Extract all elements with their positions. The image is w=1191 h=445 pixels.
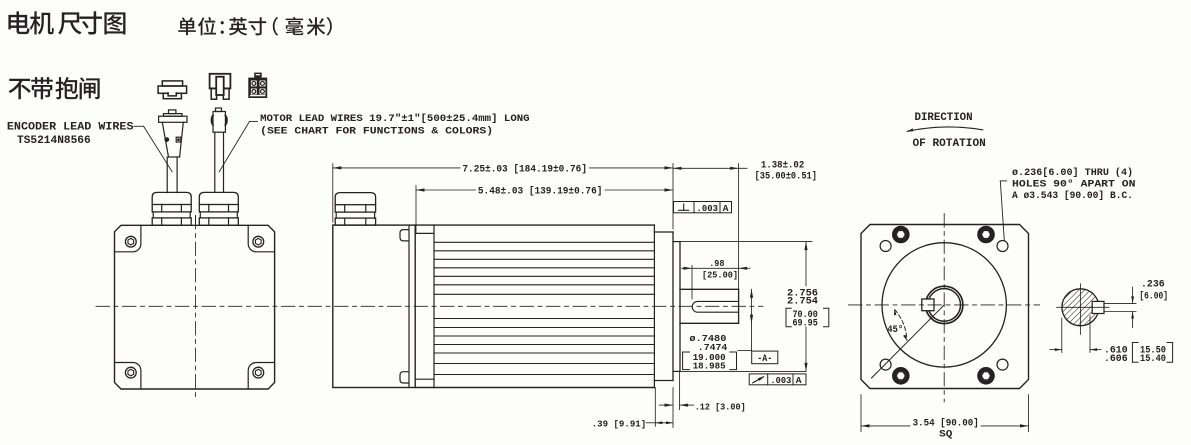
svg-text:[35.00±0.51]: [35.00±0.51] [755, 171, 817, 183]
svg-text:(SEE CHART FOR FUNCTIONS & COL: (SEE CHART FOR FUNCTIONS & COLORS) [260, 126, 493, 138]
svg-text:MOTOR LEAD WIRES 19.7"±1"[500±: MOTOR LEAD WIRES 19.7"±1"[500±25.4mm] LO… [260, 113, 529, 125]
svg-text:.12 [3.00]: .12 [3.00] [695, 401, 746, 412]
svg-text:.606: .606 [1104, 354, 1128, 365]
svg-text:OF ROTATION: OF ROTATION [913, 138, 986, 150]
svg-text:ø.236[6.00] THRU (4): ø.236[6.00] THRU (4) [1012, 167, 1133, 179]
svg-text:A ø3.543 [90.00] B.C.: A ø3.543 [90.00] B.C. [1012, 190, 1133, 202]
svg-text:A: A [723, 203, 729, 214]
svg-text:2.754: 2.754 [787, 297, 818, 308]
svg-text:[25.00]: [25.00] [702, 269, 738, 280]
svg-text:.39 [9.91]: .39 [9.91] [592, 419, 647, 430]
svg-text:15.40: 15.40 [1140, 354, 1166, 365]
svg-text:A: A [796, 375, 802, 386]
svg-text:3.54 [90.00]: 3.54 [90.00] [913, 417, 979, 429]
svg-text:18.985: 18.985 [693, 361, 726, 372]
svg-text:-A-: -A- [757, 354, 772, 365]
svg-text:.003: .003 [697, 203, 719, 214]
svg-text:1.38±.02: 1.38±.02 [761, 160, 804, 171]
svg-text:.236: .236 [1141, 280, 1165, 291]
svg-text:.003: .003 [770, 375, 791, 386]
svg-text:.98: .98 [709, 258, 725, 269]
svg-text:[6.00]: [6.00] [1139, 290, 1168, 302]
svg-text:5.48±.03 [139.19±0.76]: 5.48±.03 [139.19±0.76] [478, 186, 603, 198]
svg-text:7.25±.03 [184.19±0.76]: 7.25±.03 [184.19±0.76] [462, 163, 587, 175]
svg-text:DIRECTION: DIRECTION [915, 112, 973, 124]
svg-text:SQ: SQ [939, 429, 952, 441]
svg-text:45°: 45° [887, 324, 903, 336]
svg-text:69.95: 69.95 [793, 319, 818, 330]
svg-text:HOLES 90° APART ON: HOLES 90° APART ON [1012, 178, 1136, 190]
svg-text:TS5214N8566: TS5214N8566 [17, 135, 91, 147]
svg-text:ENCODER LEAD WIRES: ENCODER LEAD WIRES [7, 121, 134, 133]
